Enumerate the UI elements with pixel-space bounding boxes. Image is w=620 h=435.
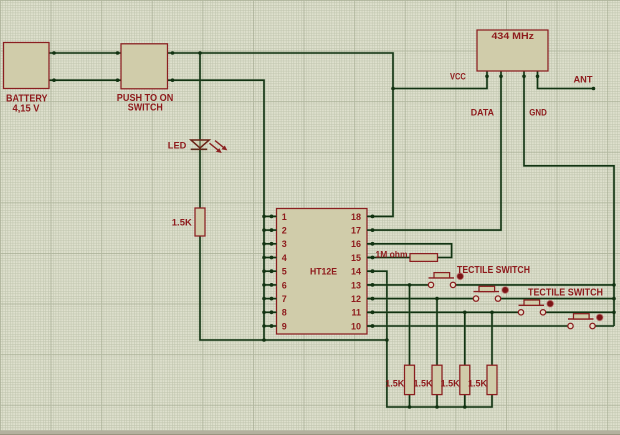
pin 8 of HT12E (stub, dots, number) [262, 308, 287, 318]
wire HT12E pin 16 to right end of 1M ohm resistor [367, 244, 452, 258]
tactile switch 2 [473, 286, 508, 301]
tactile switch 4 [568, 314, 603, 329]
junction R1 bottom [408, 405, 412, 409]
pin 11 of HT12E (stub, dot, number) [351, 308, 374, 318]
wire battery- to push switch (bottom) [49, 79, 121, 82]
svg-text:5: 5 [282, 267, 287, 277]
IC HT12E encoder box [277, 209, 368, 335]
svg-text:6: 6 [282, 280, 287, 290]
wire HT12E pin 15 to 1M ohm resistor [367, 256, 410, 259]
svg-text:DATA: DATA [471, 107, 494, 118]
label HT12E [310, 266, 337, 277]
resistor 1.5K pulldown #1 [405, 365, 415, 394]
svg-text:17: 17 [351, 226, 361, 236]
junction 434MHz pin ANT [536, 75, 540, 79]
resistor 1M ohm (oscillator) [410, 254, 438, 262]
wire switch3 right contact to right gnd bus [546, 311, 614, 314]
wire pulldown resistor R2 top [436, 299, 439, 366]
label TECTILE SWITCH (upper) [457, 265, 530, 276]
svg-text:VCC: VCC [450, 71, 466, 81]
svg-text:18: 18 [351, 212, 361, 222]
svg-text:11: 11 [351, 308, 361, 318]
label 434 MHz [492, 31, 535, 41]
svg-text:8: 8 [282, 308, 287, 318]
pin 5 of HT12E (stub, dots, number) [262, 267, 287, 277]
wire R2 bottom stub [436, 395, 439, 407]
resistor 1.5K pulldown #3 [460, 365, 470, 394]
resistor 1.5K pulldown #2 [432, 365, 442, 394]
label DATA [471, 107, 494, 118]
label 1.5K pulldown #1 [385, 379, 404, 390]
junction switch pin left bottom [116, 78, 120, 82]
label VCC [450, 71, 466, 81]
resistor 1.5K pulldown #4 [487, 365, 497, 394]
svg-text:4: 4 [282, 253, 287, 263]
wire DATA: 434MHz data pin down to HT12E pin 17 [372, 71, 501, 230]
wire VCC rail to 434MHz module pin VCC [393, 71, 487, 89]
tactile switch 1 [428, 273, 463, 288]
battery BATTERY 4,15 V [4, 43, 50, 89]
junction pin14/led rail [385, 338, 389, 342]
junction LED branch tee [198, 51, 202, 55]
label 1.5K pulldown #3 [441, 379, 460, 390]
wire row pin11 to switch3 left contact [367, 311, 518, 314]
svg-text:16: 16 [351, 239, 361, 249]
label 1.5K pulldown #4 [468, 379, 487, 390]
pin 7 of HT12E (stub, dots, number) [262, 294, 287, 304]
svg-text:1.5K: 1.5K [441, 379, 460, 390]
wire switch output top rail to VCC node and down to HT12E pin 18 [168, 53, 394, 216]
LED D1 symbol [191, 140, 228, 153]
junction right bus rowA [612, 283, 616, 287]
pin 13 of HT12E (stub, dot, number) [351, 280, 374, 290]
pin 4 of HT12E (stub, dots, number) [262, 253, 287, 263]
junction R2 bottom [435, 405, 439, 409]
label BATTERY [6, 94, 48, 105]
svg-text:1: 1 [282, 212, 287, 222]
wire pulldown resistor R3 top [463, 312, 466, 365]
junction bus bottom [262, 338, 266, 342]
pin 2 of HT12E (stub, dots, number) [262, 226, 287, 236]
svg-text:4,15 V: 4,15 V [13, 104, 40, 115]
label 4,15 V [13, 104, 40, 115]
junction R4 top row [490, 311, 494, 315]
wire GND: 434MHz gnd pin down and right edge bus [524, 71, 614, 326]
svg-text:TECTILE SWITCH: TECTILE SWITCH [457, 265, 530, 276]
pin 16 of HT12E (stub, dot, number) [351, 239, 374, 249]
svg-text:HT12E: HT12E [310, 266, 337, 277]
svg-text:1.5K: 1.5K [172, 218, 192, 229]
junction VCC tee [391, 87, 395, 91]
wire row pin10 to switch4 left contact [367, 325, 568, 328]
label 1.5K pulldown #2 [414, 379, 433, 390]
tactile switch 3 [518, 300, 553, 315]
svg-text:13: 13 [351, 280, 361, 290]
junction 434MHz pin DATA [499, 75, 503, 79]
label SWITCH [128, 103, 163, 114]
junction R3 bottom [463, 405, 467, 409]
wire battery+ to push switch (top) [49, 52, 121, 55]
junction right bus rowC [612, 311, 616, 315]
svg-text:1.5K: 1.5K [468, 379, 487, 390]
junction 434MHz pin VCC [485, 75, 489, 79]
junction battery pin- [52, 78, 56, 82]
junction battery pin+ [52, 51, 56, 55]
label 1M ohm [376, 250, 408, 261]
wire R1 bottom stub [408, 395, 411, 407]
pin 18 of HT12E (stub, dot, number) [351, 212, 374, 222]
junction R3 top row [463, 311, 467, 315]
pin 3 of HT12E (stub, dots, number) [262, 239, 287, 249]
pin 10 of HT12E (stub, dot, number) [351, 321, 374, 331]
wire ANT stub [538, 71, 594, 89]
pin 14 of HT12E (stub, dot, number) [351, 267, 374, 277]
svg-text:434 MHz: 434 MHz [492, 31, 535, 41]
svg-text:GND: GND [529, 107, 547, 118]
svg-text:1.5K: 1.5K [414, 379, 433, 390]
label ANT [574, 75, 593, 86]
node ANT end [592, 87, 596, 91]
svg-text:3: 3 [282, 239, 287, 249]
junction switch pin right bottom [171, 78, 175, 82]
svg-text:ANT: ANT [574, 75, 593, 86]
svg-text:12: 12 [351, 294, 361, 304]
svg-text:1.5K: 1.5K [385, 379, 404, 390]
wire resistor bottom bus [387, 340, 492, 407]
svg-text:9: 9 [282, 321, 287, 331]
pin 9 of HT12E (stub, dots, number) [262, 321, 287, 331]
wire switch2 right contact to right gnd bus [501, 297, 614, 300]
wire R3 bottom stub [463, 395, 466, 407]
svg-text:7: 7 [282, 294, 287, 304]
wire switch4 right contact to right gnd bus [595, 325, 614, 328]
wire pulldown resistor R1 top [408, 285, 411, 365]
wire LED branch: from top rail through LED and 1.5K to bottom rail [200, 53, 387, 340]
junction right bus rowB [612, 297, 616, 301]
wire switch output bottom rail to left address bus [168, 80, 265, 340]
svg-text:SWITCH: SWITCH [128, 103, 163, 114]
svg-text:14: 14 [351, 267, 361, 277]
junction switch pin left top [116, 51, 120, 55]
resistor 1.5K (LED series) [195, 208, 205, 236]
pin 1 of HT12E (stub, dots, number) [262, 212, 287, 222]
pin 6 of HT12E (stub, dots, number) [262, 280, 287, 290]
svg-text:TECTILE SWITCH: TECTILE SWITCH [528, 288, 603, 299]
label LED [168, 141, 187, 152]
pin 15 of HT12E (stub, dot, number) [351, 253, 374, 263]
wire HT12E pin 14 down to bottom rail junction [367, 271, 387, 340]
label PUSH TO ON [117, 93, 174, 104]
svg-text:2: 2 [282, 226, 287, 236]
svg-text:15: 15 [351, 253, 361, 263]
svg-text:1M ohm: 1M ohm [376, 250, 408, 261]
svg-text:LED: LED [168, 141, 187, 152]
wire switch1 right contact to right gnd bus [456, 284, 614, 287]
junction 434MHz pin GND [522, 75, 526, 79]
svg-text:10: 10 [351, 321, 361, 331]
pin 12 of HT12E (stub, dot, number) [351, 294, 374, 304]
wire pulldown resistor R4 top [491, 312, 494, 365]
junction R2 top row [435, 297, 439, 301]
junction R1 top row [408, 283, 412, 287]
push-to-on switch component box [121, 44, 168, 89]
label 1.5K (LED series) [172, 218, 192, 229]
junction switch pin right top [171, 51, 175, 55]
label GND [529, 107, 547, 118]
wire row pin12 to switch2 left contact [367, 297, 473, 300]
RF module 434 MHz box [477, 30, 548, 71]
wire row pin13 to switch1 left contact [367, 284, 428, 287]
label TECTILE SWITCH (lower) [528, 288, 603, 299]
pin 17 of HT12E (stub, dot, number) [351, 226, 374, 236]
